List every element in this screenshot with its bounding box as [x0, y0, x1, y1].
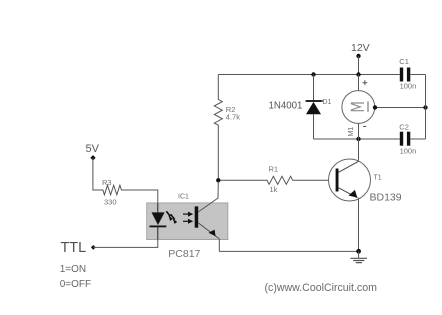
optocoupler IC1 PC817 [147, 182, 228, 260]
svg-text:M1: M1 [348, 127, 355, 137]
phototransistor base arrows [183, 213, 189, 215]
svg-text:4.7k: 4.7k [226, 113, 240, 122]
wire emitter bottom rail to ground [219, 250, 358, 252]
svg-text:TTL: TTL [61, 240, 87, 256]
phototransistor bar [195, 206, 199, 227]
capacitor C2 100n [399, 123, 425, 156]
svg-text:IC1: IC1 [178, 194, 189, 201]
wire top rail [218, 74, 399, 76]
node TTL terminal dot [91, 245, 96, 250]
wire right rail [425, 75, 427, 140]
svg-text:PC817: PC817 [168, 248, 200, 260]
capacitor C1 100n [399, 57, 425, 91]
annotation 1=ON [60, 264, 86, 275]
wire emitter down [358, 198, 360, 252]
wire bottom rail (motor minus) [314, 138, 400, 140]
svg-text:1k: 1k [270, 185, 278, 194]
svg-text:12V: 12V [351, 42, 370, 54]
resistor R3 330 [93, 158, 158, 207]
annotation 0=OFF [60, 279, 91, 290]
svg-text:BD139: BD139 [370, 192, 402, 204]
node junction right rail [423, 105, 427, 109]
phototransistor collector lead [198, 182, 218, 213]
wire TTL to LED cathode [93, 240, 158, 248]
resistor R2 [214, 75, 240, 179]
wire 12V stub [358, 56, 360, 75]
node 5V terminal dot [90, 155, 95, 160]
motor M1 [342, 75, 375, 140]
svg-text:1N4001: 1N4001 [269, 101, 303, 112]
node junction R1 / R2 / opto collector [216, 178, 220, 182]
svg-text:R1: R1 [269, 165, 279, 174]
svg-text:100n: 100n [400, 82, 417, 91]
svg-text:330: 330 [104, 198, 117, 207]
annotation copyright [265, 282, 378, 294]
resistor R1 [220, 165, 328, 195]
phototransistor emitter lead [198, 223, 219, 252]
node 12V terminal dot [356, 54, 360, 58]
wire collector to motor [358, 139, 360, 161]
wire motor case to right rail [375, 107, 426, 109]
svg-text:R3: R3 [102, 178, 112, 187]
transistor T1 BD139 [329, 159, 402, 204]
diode D1 1N4001 [269, 75, 332, 140]
node junction motor case [373, 105, 377, 109]
svg-text:5V: 5V [86, 143, 100, 155]
svg-text:C2: C2 [399, 123, 409, 132]
light emission arrows [166, 211, 170, 216]
node 12V supply label [351, 42, 370, 54]
svg-text:D1: D1 [323, 99, 332, 106]
svg-text:T1: T1 [374, 175, 382, 182]
svg-text:(c)www.CoolCircuit.com: (c)www.CoolCircuit.com [265, 282, 378, 294]
node junction top rail / 12V [356, 72, 360, 76]
ground [350, 251, 367, 262]
node junction bottom rail / motor [356, 137, 360, 141]
node TTL input label [61, 240, 87, 256]
svg-text:0=OFF: 0=OFF [60, 279, 91, 290]
node junction top rail / D1 [311, 72, 315, 76]
svg-text:C1: C1 [399, 57, 409, 66]
LED inside opto [157, 203, 159, 213]
node 5V supply label [86, 143, 100, 155]
svg-text:100n: 100n [400, 147, 417, 156]
node junction ground [356, 249, 361, 254]
svg-text:1=ON: 1=ON [60, 264, 86, 275]
